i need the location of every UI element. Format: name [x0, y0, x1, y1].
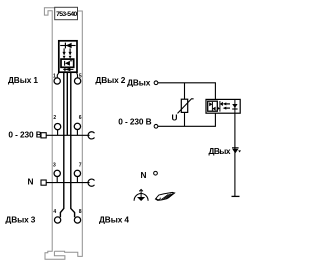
photo-triac symbol — [211, 102, 213, 111]
svg-text:753-540: 753-540 — [56, 11, 77, 18]
wire bus left — [60, 73, 63, 218]
terminal 3 — [54, 170, 60, 176]
wire terminal 6 stem — [76, 130, 78, 136]
wire terminal 2 stem — [57, 130, 59, 135]
wire terminal 3 stem — [56, 177, 58, 183]
opto arrow top — [225, 103, 230, 105]
light tick T2 — [69, 56, 72, 59]
power jumper pictogram dome — [134, 194, 148, 201]
wire bottom right — [158, 113, 215, 126]
svg-text:U: U — [172, 113, 178, 123]
node 0-230V terminal circle — [154, 124, 158, 128]
field terminal square L — [41, 133, 46, 138]
hand pictogram — [155, 192, 174, 200]
svg-text:3: 3 — [53, 163, 56, 169]
wire box to terminal 1 — [57, 73, 59, 78]
terminal 8 — [74, 217, 80, 223]
svg-text:8: 8 — [79, 209, 82, 215]
svg-text:ДВых 4: ДВых 4 — [99, 214, 129, 224]
triac symbol mid — [219, 101, 221, 112]
svg-text:ДВых 3: ДВых 3 — [5, 214, 35, 224]
terminal 1 — [54, 78, 60, 84]
terminal 4 — [54, 217, 60, 223]
svg-text:N: N — [28, 177, 34, 187]
light tick T1 — [63, 56, 66, 59]
power jumper contact arc L — [88, 132, 94, 139]
svg-text:4: 4 — [53, 209, 56, 215]
output level small tick — [238, 150, 241, 152]
opto arrow bottom — [225, 107, 230, 109]
termination bar — [232, 195, 240, 197]
wire varistor branch top — [184, 83, 186, 99]
LED arrow A2 — [69, 48, 71, 52]
wire output down — [234, 113, 236, 196]
triac symbol — [64, 61, 66, 66]
diode D1 rail — [60, 45, 75, 47]
wire N line — [46, 182, 89, 184]
wire top right — [158, 83, 215, 100]
svg-text:2: 2 — [53, 115, 56, 121]
electronics box U1 — [59, 41, 77, 72]
wire box to terminal 5 — [76, 73, 79, 78]
terminal 2 — [54, 123, 60, 129]
terminal 6 — [74, 123, 80, 129]
field terminal square N — [41, 180, 46, 185]
LED arrow A1 — [63, 48, 65, 52]
node N stub circle — [154, 171, 158, 175]
svg-text:ДВых 2: ДВых 2 — [95, 75, 125, 85]
photo-triac inner box — [208, 101, 218, 111]
varistor RU body — [181, 99, 187, 112]
svg-text:ДВых 1: ДВых 1 — [8, 75, 38, 85]
svg-text:N: N — [141, 170, 147, 180]
svg-text:ДВых: ДВых — [127, 77, 151, 87]
terminal 5 — [74, 78, 80, 84]
wire terminal 7 stem — [76, 177, 78, 183]
wire varistor branch bottom — [184, 112, 186, 126]
svg-text:0 - 230 В: 0 - 230 В — [8, 129, 41, 139]
output level symbol — [232, 147, 239, 149]
svg-text:6: 6 — [79, 115, 82, 121]
svg-text:5: 5 — [79, 74, 82, 80]
svg-text:ДВых: ДВых — [209, 146, 231, 156]
module outline right profile with bottom step — [54, 11, 82, 256]
diode D2 below triac box — [63, 68, 73, 70]
power jumper contact arc N — [88, 179, 94, 186]
label box 753-540 — [55, 7, 78, 19]
LED element right — [234, 99, 236, 113]
wire L line — [46, 134, 89, 136]
svg-text:7: 7 — [79, 163, 82, 169]
diode D1 — [64, 43, 66, 49]
terminal 7 — [74, 170, 80, 176]
svg-text:0 - 230 В: 0 - 230 В — [118, 117, 151, 127]
module outline left profile with top hook and bottom foot — [44, 8, 65, 260]
svg-text:1: 1 — [53, 74, 56, 80]
wire bus center — [66, 73, 68, 136]
triac box — [61, 59, 74, 67]
opto-triac box U2 — [206, 99, 240, 113]
varistor RU diagonal — [178, 99, 194, 114]
node DVyh terminal circle — [154, 81, 158, 85]
wire bus right — [71, 73, 75, 218]
